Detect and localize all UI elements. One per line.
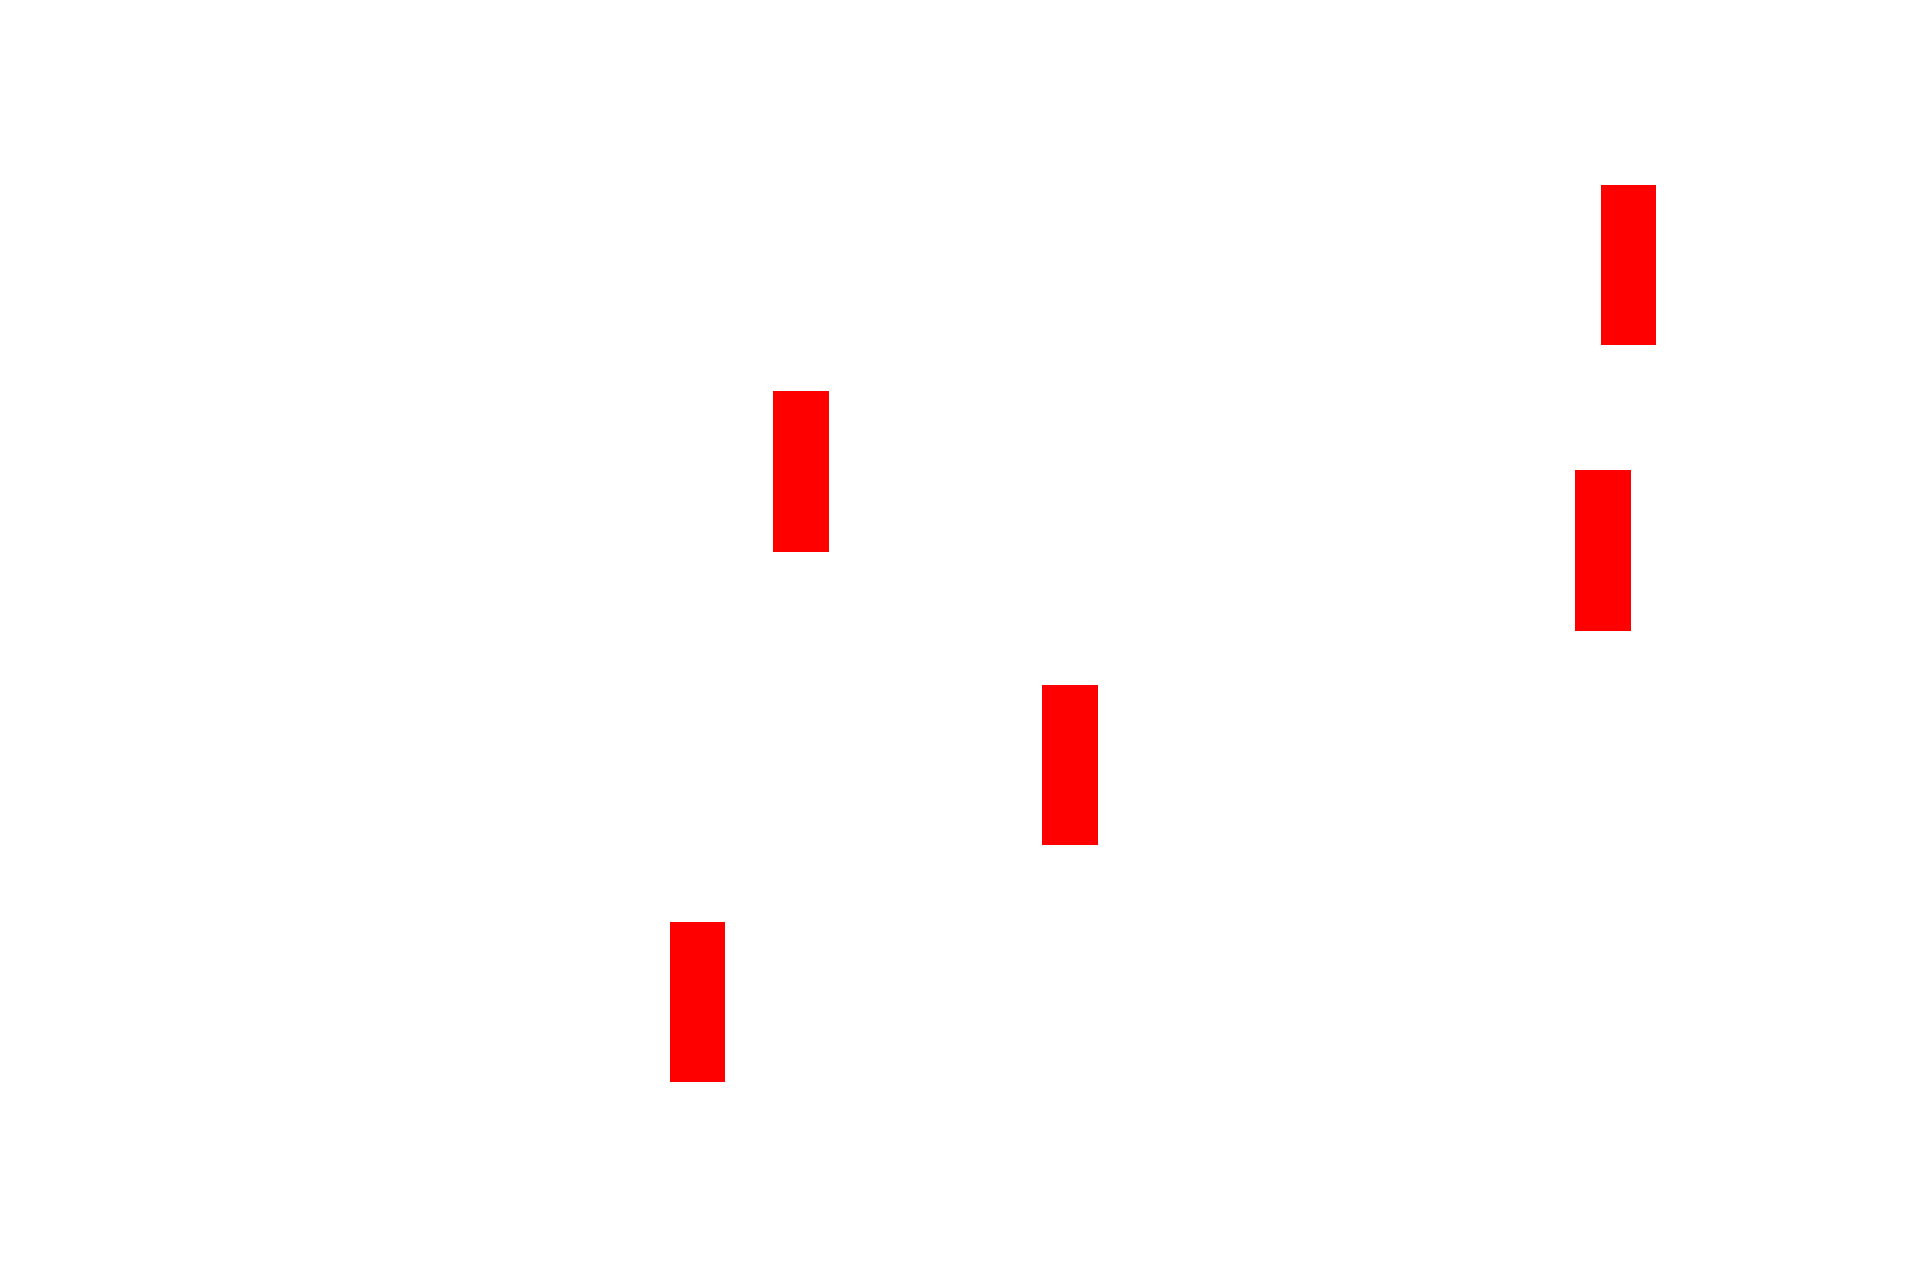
red bar 4 (center) — [1042, 685, 1098, 845]
red bar 5 (lower left) — [670, 922, 725, 1082]
red bar 3 (middle right) — [1575, 470, 1631, 631]
red bar 1 (top right) — [1601, 185, 1656, 345]
red bar 2 (upper middle-left) — [773, 391, 829, 552]
